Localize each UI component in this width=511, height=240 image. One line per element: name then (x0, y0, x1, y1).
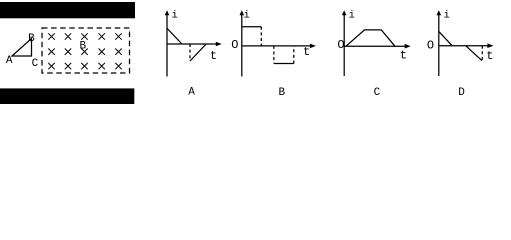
svg-text:O: O (337, 38, 344, 52)
svg-text:t: t (486, 49, 493, 63)
flux cross row3 col5 (115, 63, 121, 69)
flux cross row1 col4 (99, 33, 105, 39)
svg-text:i: i (172, 10, 178, 22)
svg-text:D: D (458, 87, 465, 99)
graph A i axis (166, 13, 168, 77)
flux cross row2 col5 (115, 49, 121, 55)
svg-text:t: t (210, 49, 217, 63)
svg-text:B: B (80, 41, 87, 53)
flux cross row1 col2 (65, 33, 71, 39)
graph B i axis (241, 13, 243, 77)
graph D i axis arrowhead (437, 10, 442, 15)
flux cross row1 col3 (81, 33, 87, 39)
svg-text:A: A (6, 55, 13, 67)
graph B t axis (242, 45, 313, 47)
graph A descending current line (167, 28, 182, 44)
flux cross row2 col4 (99, 49, 105, 55)
graph C t axis (344, 45, 408, 47)
graph D i axis (438, 13, 440, 76)
graph C i axis (343, 13, 345, 76)
svg-text:B: B (279, 87, 286, 99)
svg-text:i: i (349, 10, 355, 22)
graph A t axis arrowhead (216, 42, 222, 47)
graph B t axis arrowhead (310, 44, 316, 49)
graph B i axis arrowhead (240, 10, 245, 15)
flux cross row1 col5 (115, 33, 121, 39)
svg-text:B: B (28, 33, 35, 45)
triangular loop ABC (12, 39, 32, 57)
graph D descending current line below axis (466, 46, 482, 61)
graph B negative step dashed left edge (273, 46, 275, 64)
graph B negative step line (274, 63, 294, 65)
svg-text:t: t (303, 45, 310, 59)
graph C i axis arrowhead (342, 10, 347, 15)
redaction bar bottom (0, 88, 134, 104)
flux cross row3 col3 (81, 63, 87, 69)
svg-text:i: i (244, 10, 250, 22)
flux cross row3 col2 (65, 63, 71, 69)
svg-text:t: t (400, 48, 407, 62)
svg-text:A: A (188, 87, 195, 99)
flux cross row3 col4 (99, 63, 105, 69)
flux cross row2 col3 (81, 49, 87, 55)
graph C t axis arrowhead (405, 44, 411, 49)
graph A t axis (167, 43, 219, 45)
flux cross row1 col1 (48, 33, 54, 39)
graph C trapezoid current curve (346, 30, 395, 46)
svg-text:i: i (444, 10, 450, 22)
svg-text:C: C (32, 58, 39, 70)
flux cross row2 col1 (48, 49, 54, 55)
svg-text:O: O (231, 38, 238, 52)
flux cross row2 col2 (65, 49, 71, 55)
graph A dashed jump line (189, 44, 191, 61)
flux cross row3 col1 (48, 63, 54, 69)
graph D t axis arrowhead (487, 43, 493, 48)
svg-text:C: C (374, 87, 381, 99)
magnetic field region dashed boundary (42, 28, 130, 73)
graph D t axis (439, 45, 491, 47)
graph A rising current line (190, 44, 206, 61)
svg-text:O: O (427, 39, 434, 53)
graph A i axis arrowhead (165, 10, 170, 15)
graph D descending current line above axis (439, 31, 452, 45)
redaction bar top (0, 2, 135, 18)
graph B negative step dashed right edge (293, 46, 295, 64)
graph B positive step line (242, 26, 261, 28)
graph B positive step dashed drop (260, 27, 262, 46)
graph D dashed jump line (481, 46, 483, 60)
